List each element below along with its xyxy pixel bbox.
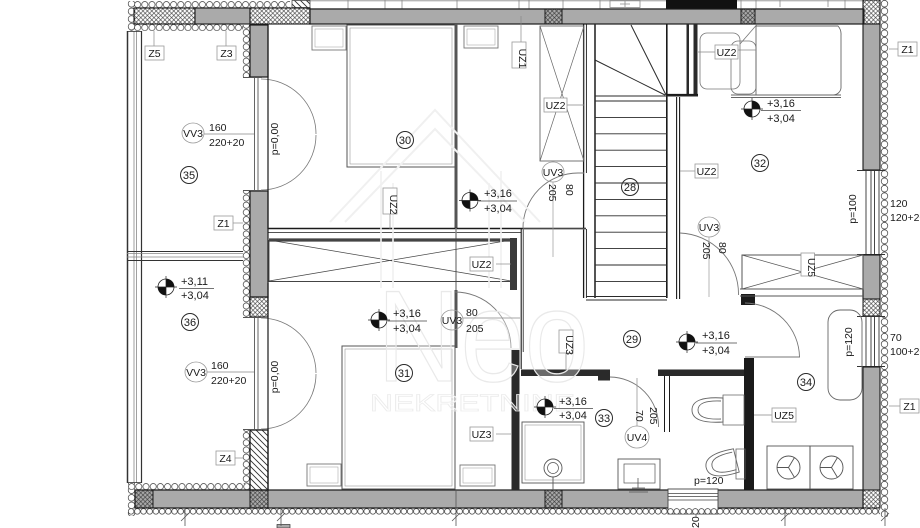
wall with door UV3b x455	[455, 290, 458, 348]
rotated small texts	[269, 123, 920, 528]
wc toilet top	[692, 395, 744, 425]
elevation marker corridor	[459, 190, 481, 212]
top band inner edge helper already drawn; inner face lines	[268, 24, 755, 490]
svg-text:UZ5: UZ5	[805, 258, 816, 277]
svg-text:+3,04: +3,04	[767, 113, 795, 125]
svg-text:+3,04: +3,04	[559, 410, 587, 422]
hatch square bottom far-left	[135, 490, 153, 508]
UZ3 rotated hall	[565, 352, 567, 369]
door hall->bath33	[610, 377, 659, 427]
corridor wardrobe	[540, 26, 584, 161]
scallop band above bottom wall (terrace side)	[128, 483, 250, 490]
room circle 30	[397, 132, 414, 149]
svg-text:p=100: p=100	[847, 194, 859, 224]
bath 33 vanity	[618, 459, 660, 492]
UV3 hall	[708, 237, 710, 297]
hall bottom wall y369-376	[521, 370, 610, 377]
gray pier upper	[250, 25, 268, 77]
scallop band under top-left wall	[134, 24, 243, 31]
upper apartment strip outline	[306, 1, 864, 9]
hatch block right mid	[863, 299, 880, 316]
svg-text:UZ2: UZ2	[546, 100, 566, 112]
svg-text:UV3: UV3	[442, 315, 463, 327]
UZ2 corridor wardrobe	[567, 104, 584, 106]
room circle 31	[396, 365, 413, 382]
Z1 right top	[889, 48, 899, 50]
divider wall between 35/36	[127, 252, 243, 261]
UZ2 top right	[698, 50, 756, 52]
insulation scallop band top-left outer	[134, 1, 290, 8]
svg-text:80: 80	[716, 242, 728, 254]
svg-text:+3,04: +3,04	[181, 290, 209, 302]
partition wc/34 black	[744, 358, 754, 490]
room 30 bed	[347, 25, 455, 167]
room 32 bed	[731, 26, 841, 98]
hatch square in band 1	[545, 9, 562, 24]
VV3 upper	[182, 123, 204, 143]
stairwell left wall x584	[583, 24, 585, 298]
svg-text:Neo: Neo	[377, 263, 589, 409]
svg-text:31: 31	[398, 368, 410, 380]
svg-text:UZ1: UZ1	[516, 49, 528, 69]
elevation marker room 36	[155, 276, 177, 298]
hatch square in band 2	[741, 9, 755, 24]
svg-text:205: 205	[700, 242, 712, 260]
room circle 28 stairs	[622, 179, 639, 196]
window right lower	[857, 317, 885, 367]
svg-text:UV3: UV3	[543, 167, 564, 179]
UZ1 rotated	[520, 16, 522, 42]
hall closet right	[740, 255, 863, 296]
elevation marker hall 29	[676, 331, 698, 353]
svg-text:70: 70	[633, 410, 645, 422]
treads	[595, 101, 667, 281]
gray pier mid	[250, 191, 268, 297]
svg-text:205: 205	[546, 184, 558, 202]
sink above band	[610, 0, 640, 8]
hatch top-right corner	[863, 0, 880, 24]
svg-text:+3,04: +3,04	[484, 203, 512, 215]
room 31 closet	[269, 238, 517, 290]
svg-text:100+20: 100+20	[890, 346, 920, 358]
diag hatch block lower (Z4)	[250, 430, 268, 490]
small gray stub bottom	[277, 525, 290, 528]
svg-text:120: 120	[890, 198, 908, 210]
svg-text:VV3: VV3	[183, 128, 203, 140]
partition bath33/wc	[665, 376, 670, 432]
svg-text:p=0,00: p=0,00	[269, 361, 281, 394]
svg-text:UZ2: UZ2	[472, 259, 492, 271]
corridor/hall left wall x522	[520, 229, 522, 369]
elevation marker room 31	[368, 309, 390, 331]
stair upper-right thick wall	[687, 24, 690, 96]
right wall gray lower	[863, 367, 880, 490]
hatched wall top-left	[134, 8, 195, 24]
svg-text:p=0,00: p=0,00	[269, 123, 281, 156]
bottom of stairs	[586, 297, 667, 301]
room 30 nightstand left	[312, 26, 346, 50]
svg-text:UZ3: UZ3	[563, 335, 575, 355]
glazed door VV3 lower	[243, 318, 316, 430]
winder	[595, 95, 698, 97]
UV3 corridor	[552, 182, 554, 257]
room 31 nightstands	[307, 464, 341, 486]
washing machines	[767, 446, 853, 489]
Z1 left	[233, 222, 243, 224]
room 31 bed	[342, 346, 455, 489]
glazed door VV3 upper	[243, 78, 316, 191]
svg-text:35: 35	[183, 170, 195, 182]
svg-text:Z4: Z4	[219, 453, 231, 465]
elevation marker bath 33	[534, 396, 556, 418]
door swing stairs to corridor	[523, 173, 584, 229]
svg-text:32: 32	[754, 158, 766, 170]
svg-text:VV3: VV3	[186, 367, 206, 379]
UZ3 bath	[496, 433, 511, 435]
UZ5 rotated closet	[801, 253, 815, 276]
svg-text:Z5: Z5	[148, 48, 160, 60]
hatch bottom-right corner	[863, 490, 880, 508]
door UV3b room31	[455, 292, 511, 348]
bottom gray band	[135, 490, 863, 508]
bath 33 shower	[522, 422, 584, 490]
black wall above band	[666, 0, 737, 9]
Z1 right bottom	[889, 405, 901, 407]
scallop band below bottom wall	[128, 508, 880, 517]
wall 30/31 divider y229	[268, 228, 586, 230]
svg-text:220+20: 220+20	[211, 375, 246, 387]
svg-text:120+20: 120+20	[890, 212, 920, 224]
Z4	[235, 457, 243, 459]
wall room30 right x455	[455, 24, 458, 228]
svg-text:UV4: UV4	[627, 432, 648, 444]
room circle 29 hall	[624, 331, 641, 348]
window/door tags	[182, 122, 728, 448]
svg-text:p=120: p=120	[843, 327, 855, 357]
svg-text:UZ2: UZ2	[387, 195, 399, 215]
svg-text:36: 36	[184, 317, 196, 329]
room circle 33 bath	[596, 410, 613, 427]
bottom window (p=120) gap	[668, 489, 718, 514]
svg-text:UZ5: UZ5	[774, 410, 794, 422]
room circle 35	[181, 167, 198, 184]
gray pier top-left	[195, 8, 250, 24]
svg-text:+3,16: +3,16	[393, 308, 421, 320]
right wall gray mid	[863, 255, 880, 299]
svg-text:205: 205	[647, 407, 659, 425]
wall stair/room32 lower	[676, 97, 678, 299]
svg-text:29: 29	[626, 334, 638, 346]
scallop right strip	[880, 0, 889, 517]
Z5	[153, 31, 155, 47]
room circle 32	[752, 155, 769, 172]
svg-text:UZ2: UZ2	[697, 166, 717, 178]
VV3 lower	[185, 362, 207, 382]
UZ5 room34	[754, 414, 773, 416]
svg-text:+3,04: +3,04	[393, 323, 421, 335]
svg-text:Z1: Z1	[217, 218, 229, 230]
room circle 36	[182, 314, 199, 331]
wire dividers	[348, 0, 845, 24]
hatch square bottom left-wall	[250, 490, 268, 508]
svg-text:+3,04: +3,04	[702, 345, 730, 357]
svg-text:80: 80	[466, 307, 478, 319]
svg-text:+3,11: +3,11	[181, 276, 208, 288]
svg-text:p=120: p=120	[694, 475, 724, 487]
scallop strips	[243, 25, 251, 78]
svg-text:30: 30	[399, 135, 411, 147]
hatch square bottom center	[545, 490, 562, 508]
svg-text:160: 160	[211, 360, 229, 372]
svg-text:205: 205	[466, 323, 484, 335]
room circle 34 bath	[798, 374, 815, 391]
UV4	[636, 378, 638, 426]
svg-text:Z1: Z1	[901, 44, 913, 56]
wc toilet bottom	[703, 449, 739, 480]
svg-text:33: 33	[598, 413, 610, 425]
Z3	[225, 31, 227, 47]
dimension ticks bottom	[181, 490, 889, 526]
right wall gray upper	[863, 24, 880, 170]
UZ2 room32	[680, 170, 695, 172]
hatched wall top-left 2	[250, 8, 310, 24]
UZ2 room31 closet	[496, 263, 511, 265]
svg-text:28: 28	[624, 182, 636, 194]
left inner wall line room31	[267, 283, 269, 490]
door stairs->hall (UV3a)	[680, 233, 739, 295]
UV3 room31	[441, 310, 463, 330]
svg-text:Z1: Z1	[903, 401, 915, 413]
svg-text:UV3: UV3	[699, 222, 720, 234]
svg-text:34: 34	[800, 377, 812, 389]
svg-text:+3,16: +3,16	[702, 330, 730, 342]
svg-text:70: 70	[890, 332, 902, 344]
svg-text:+3,16: +3,16	[767, 98, 795, 110]
svg-text:+3,16: +3,16	[484, 188, 512, 200]
top-right shower (upper apt)	[700, 25, 757, 94]
bath33 left wall thick	[512, 350, 520, 490]
room 30 nightstand right	[464, 26, 498, 48]
left inner wall line room30	[267, 24, 269, 229]
room 34 bathtub	[828, 310, 862, 400]
svg-text:UZ3: UZ3	[472, 429, 492, 441]
door hall->34	[745, 303, 800, 357]
svg-text:UZ2: UZ2	[717, 47, 737, 59]
hatch block mid	[250, 297, 268, 317]
svg-text:220+20: 220+20	[209, 137, 244, 149]
elevation marker room 32	[741, 98, 763, 120]
main top gray band	[310, 9, 864, 24]
window Z1 right upper	[857, 171, 885, 255]
UZ2 rotated room30	[389, 214, 391, 229]
svg-text:+3,16: +3,16	[559, 396, 587, 408]
stair right flight edge	[666, 24, 668, 298]
svg-text:80: 80	[563, 184, 575, 196]
black stub above door34	[741, 294, 755, 305]
svg-text:Z3: Z3	[220, 48, 232, 60]
svg-text:160: 160	[209, 122, 227, 134]
